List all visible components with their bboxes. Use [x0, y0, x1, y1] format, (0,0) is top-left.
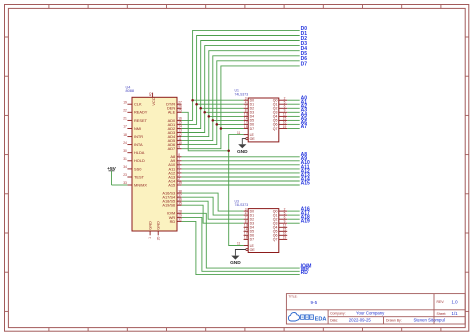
wire A17/S4: 8088 pin to U3 D1	[182, 197, 244, 215]
U3 body	[235, 199, 279, 252]
wire A18: U3 Q2 to net label	[287, 218, 300, 220]
junction node AD3	[203, 111, 206, 114]
wire AD5: 8088 AD5 pin up to data bus and to U1 D5	[182, 56, 300, 141]
svg-text:REV:: REV:	[437, 300, 445, 304]
U3 pin 8 D3	[244, 220, 255, 226]
U4 pin 31 HOLD	[123, 157, 145, 163]
junction node AD2	[199, 107, 202, 110]
wire AD2 branch to U1 D2	[201, 107, 244, 109]
svg-text:OE: OE	[250, 248, 256, 252]
U3 pin 4 D1	[244, 211, 255, 217]
U1 pin 15 Q5	[273, 117, 287, 123]
wire AD0: 8088 AD0 pin up to data bus and to U1 D0	[182, 30, 300, 120]
U4 pin 14 AD2	[168, 125, 182, 131]
U4 pin 30 HLDA	[123, 149, 145, 155]
U4 pin 3 A13	[168, 173, 181, 179]
svg-text:TEST: TEST	[134, 174, 145, 179]
title text fields	[289, 295, 459, 323]
U4 pin 39 A15	[168, 181, 182, 187]
wire AD6: 8088 AD6 pin up to data bus and to U1 D6	[182, 61, 300, 145]
U3 pin 13 D4	[244, 224, 255, 230]
wire AD3: 8088 AD3 pin up to data bus and to U1 D3	[182, 46, 300, 133]
junction node AD1	[195, 103, 198, 106]
wire A16/S3: 8088 pin to U3 D0	[182, 193, 244, 211]
svg-text:Your Company: Your Company	[356, 311, 385, 316]
wire A14: 8088 A14 pin to net label	[182, 180, 300, 182]
svg-text:READY: READY	[134, 110, 148, 115]
svg-text:25: 25	[178, 109, 182, 113]
wire A4: U1 Q4 to net label	[287, 115, 300, 117]
wire A13: 8088 A13 pin to net label	[182, 176, 300, 178]
svg-text:CLK: CLK	[134, 102, 142, 107]
svg-text:18: 18	[123, 133, 127, 137]
wire IO/M: 8088 pin to net label	[182, 213, 300, 268]
svg-text:A19: A19	[301, 219, 310, 225]
wire A2: U1 Q2 to net label	[287, 107, 300, 109]
wire A17: U3 Q1 to net label	[287, 214, 300, 216]
U4 pin 17 NMI	[123, 125, 141, 131]
svg-text:24: 24	[123, 141, 127, 145]
svg-text:A15: A15	[168, 182, 175, 187]
U1 pin 13 D4	[244, 113, 255, 119]
svg-text:30: 30	[123, 149, 127, 153]
wire A15: 8088 A15 pin to net label	[182, 184, 300, 186]
junction node AD4	[208, 115, 211, 118]
svg-text:MN/MX: MN/MX	[134, 182, 147, 187]
U1 pin 18 D7	[244, 125, 255, 131]
svg-text:OE: OE	[250, 137, 256, 141]
wire AD3 branch to U1 D3	[205, 111, 244, 113]
junction node AD0	[191, 99, 194, 102]
svg-text:D7: D7	[250, 127, 255, 131]
junction node AD5	[212, 119, 215, 122]
U1 pin 1 OE (inverting bubble)	[244, 137, 256, 141]
svg-text:INTA: INTA	[134, 142, 143, 147]
wire AD0 branch to U1 D0	[193, 99, 244, 101]
U1 pin 9 Q3	[273, 109, 287, 115]
U1 pin 11 LE	[237, 131, 255, 137]
svg-text:22: 22	[123, 109, 127, 113]
wire AD5 branch to U1 D5	[213, 119, 244, 121]
wire AD4 branch to U1 D4	[209, 115, 244, 117]
U4 pin 5 A11	[169, 165, 182, 171]
U1 pin 14 D5	[244, 117, 255, 123]
U4 body	[126, 85, 178, 231]
U4 pin 33 MN/MX	[123, 181, 147, 187]
U4 pin 15 AD1	[168, 121, 182, 127]
U4 pin 7 A9	[170, 157, 181, 163]
svg-text:Q7: Q7	[273, 127, 278, 131]
svg-text:D7: D7	[301, 61, 308, 67]
svg-text:9-5: 9-5	[311, 300, 318, 305]
U1 pin 4 D1	[244, 101, 255, 107]
wire RD: 8088 pin to net label	[182, 221, 300, 274]
U4 pin 10 AD6	[168, 141, 182, 147]
wire A9: 8088 A9 pin to net label	[182, 160, 300, 162]
U3 pin 7 D2	[244, 216, 255, 222]
wire ALE branch down to U3 LE pin 11	[229, 151, 244, 246]
wire A5: U1 Q5 to net label	[287, 119, 300, 121]
U4 pin 1 GND	[147, 221, 152, 239]
svg-text:Sheet:: Sheet:	[437, 312, 447, 316]
wire A3: U1 Q3 to net label	[287, 111, 300, 113]
svg-text:RD: RD	[301, 270, 309, 276]
wire AD4: 8088 AD4 pin up to data bus and to U1 D4	[182, 51, 300, 137]
U4 pin 36 A18/S5	[162, 197, 182, 203]
U4 pin 34 SS0	[123, 165, 142, 171]
U4 pin 23 TEST	[123, 173, 144, 179]
svg-text:Company:: Company:	[330, 312, 346, 316]
svg-text:VCC: VCC	[151, 97, 156, 105]
svg-text:21: 21	[123, 117, 127, 121]
wire A8: 8088 A8 pin to net label	[182, 156, 300, 158]
U4 pin 26 DEN	[167, 105, 182, 111]
wire A16: U3 Q0 to net label	[287, 210, 300, 212]
svg-text:A15: A15	[301, 180, 310, 186]
EDA logo (cloud + CJK wordmark)	[288, 313, 326, 323]
wire A18/S5: 8088 pin to U3 D2	[182, 201, 244, 219]
U4 pin 28 IO/M	[167, 210, 182, 216]
svg-text:D7: D7	[250, 238, 255, 242]
U4 pin 21 RESET	[123, 117, 147, 123]
wire A6: U1 Q6 to net label	[287, 123, 300, 125]
wire AD1: 8088 AD1 pin up to data bus and to U1 D1	[182, 36, 300, 125]
ground GND at U3 OE	[230, 250, 246, 267]
svg-text:Steven Sitompul: Steven Sitompul	[414, 318, 445, 323]
IC U1 74LS373 address latch	[235, 89, 288, 142]
U1 pin 6 Q2	[273, 105, 287, 111]
wire AD6 branch to U1 D6	[217, 123, 244, 125]
wire A7: U1 Q7 to net label	[287, 128, 300, 130]
U4 pin 38 A16/S3	[162, 189, 182, 195]
U4 pin 11 AD5	[168, 137, 182, 143]
U4 pin 6 A10	[168, 161, 181, 167]
svg-text:19: 19	[283, 125, 287, 129]
U4 pin 18 INTR	[123, 133, 143, 139]
U3 pin 5 Q1	[273, 211, 287, 217]
U4 pin 9 AD7	[168, 145, 182, 151]
U1 pin 7 D2	[244, 105, 255, 111]
svg-text:39: 39	[178, 181, 182, 185]
wire A19: U3 Q3 to net label	[287, 222, 300, 224]
wire A1: U1 Q1 to net label	[287, 103, 300, 105]
U4 pin 12 AD4	[168, 133, 182, 139]
svg-text:1: 1	[148, 237, 152, 239]
U3 pin 11 LE	[237, 242, 255, 248]
svg-text:RESET: RESET	[134, 118, 148, 123]
svg-text:19: 19	[123, 100, 127, 104]
U1 pin 5 Q1	[273, 101, 287, 107]
U4 pin 24 INTA	[123, 141, 143, 147]
U1 body	[235, 89, 279, 142]
wire ALE: 8088 ALE pin to U1 LE and U3 LE	[182, 112, 229, 151]
svg-text:GND: GND	[230, 260, 241, 266]
svg-text:8088: 8088	[126, 89, 134, 93]
svg-text:35: 35	[178, 201, 182, 205]
U4 pin 27 DT/R	[166, 100, 182, 106]
wire WR: 8088 pin to net label	[182, 217, 300, 271]
svg-text:40: 40	[149, 92, 153, 96]
svg-text:Date:: Date:	[330, 318, 338, 322]
junction node ALE	[227, 150, 230, 153]
svg-text:HOLD: HOLD	[134, 158, 145, 163]
svg-text:Q7: Q7	[273, 238, 278, 242]
U4 pin 4 A12	[168, 169, 181, 175]
svg-text:ALE: ALE	[168, 110, 176, 115]
svg-text:Drawn By:: Drawn By:	[386, 318, 402, 322]
U1 pin 12 Q4	[273, 113, 287, 119]
U1 pin 16 Q6	[273, 121, 287, 127]
ground GND at U1 OE	[237, 139, 248, 155]
IC U3 74LS373 address latch	[235, 199, 288, 252]
U3 pin 19 Q7	[273, 236, 287, 242]
wire A12: 8088 A12 pin to net label	[182, 172, 300, 174]
wire A19/S6: 8088 pin to U3 D3	[182, 205, 244, 223]
junction node AD6	[216, 123, 219, 126]
svg-text:A7: A7	[301, 124, 308, 130]
U4 pin 16 AD0	[168, 117, 182, 123]
svg-text:18: 18	[244, 236, 248, 240]
IC U4 8088 CPU	[123, 85, 182, 240]
svg-text:HLDA: HLDA	[134, 150, 145, 155]
svg-text:AD7: AD7	[168, 146, 176, 151]
U3 pin 17 D6	[244, 232, 255, 238]
U3 pin 16 Q6	[273, 232, 287, 238]
svg-text:A19/S6: A19/S6	[162, 203, 175, 208]
U4 pin 35 A19/S6	[162, 201, 182, 207]
U1 pin 17 D6	[244, 121, 255, 127]
svg-text:1.0: 1.0	[452, 299, 459, 304]
svg-text:GND: GND	[147, 221, 152, 230]
U3 pin 12 Q4	[273, 224, 287, 230]
U3 pin 9 Q3	[273, 220, 287, 226]
U4 pin 29 WR	[169, 214, 182, 220]
U1 pin 2 Q0	[273, 97, 287, 103]
svg-text:GND: GND	[237, 149, 248, 155]
U3 pin 1 OE (inverting bubble)	[244, 248, 256, 252]
wire A10: 8088 A10 pin to net label	[182, 164, 300, 166]
U1 pin 19 Q7	[273, 125, 287, 131]
U4 pin 2 A14	[168, 177, 181, 183]
svg-text:31: 31	[123, 157, 127, 161]
svg-text:TITLE:: TITLE:	[289, 295, 298, 299]
wire A0: U1 Q0 to net label	[287, 99, 300, 101]
U4 pin 13 AD3	[168, 129, 182, 135]
U4 pin 8 A8	[170, 153, 181, 159]
svg-text:23: 23	[123, 173, 127, 177]
U4 pin 25 ALE	[168, 109, 182, 115]
wire A11: 8088 A11 pin to net label	[182, 168, 300, 170]
svg-text:32: 32	[178, 218, 182, 222]
svg-text:INTR: INTR	[134, 134, 143, 139]
svg-text:9: 9	[178, 145, 180, 149]
U3 pin 18 D7	[244, 236, 255, 242]
svg-text:SS0: SS0	[134, 166, 142, 171]
svg-text:1/1: 1/1	[452, 311, 459, 316]
svg-text:20: 20	[156, 236, 160, 240]
title block	[286, 294, 465, 324]
U3 pin 3 D0	[244, 207, 255, 213]
wire AD7 branch to U1 D7	[221, 128, 244, 130]
wire ALE branch up to U1 LE pin 11	[229, 135, 244, 151]
U4 pin 37 A17/S4	[162, 193, 182, 199]
svg-text:19: 19	[283, 236, 287, 240]
wire AD1 branch to U1 D1	[197, 103, 244, 105]
U4 pin 32 RD	[170, 218, 182, 224]
U1 pin 8 D3	[244, 109, 255, 115]
U3 pin 15 Q5	[273, 228, 287, 234]
power symbol +5V	[107, 166, 116, 185]
svg-text:34: 34	[123, 165, 127, 169]
U4 pin 20 GND	[156, 221, 161, 240]
wire +5V to U4 MN/MX	[112, 184, 128, 186]
U4 pin 22 READY	[123, 109, 148, 115]
svg-text:2022-09-25: 2022-09-25	[349, 318, 372, 323]
U4 pin 19 CLK	[123, 100, 142, 106]
U3 pin 2 Q0	[273, 207, 287, 213]
svg-text:18: 18	[244, 125, 248, 129]
svg-text:RD: RD	[170, 219, 176, 224]
svg-text:NMI: NMI	[134, 126, 141, 131]
wire AD2: 8088 AD2 pin up to data bus and to U1 D2	[182, 41, 300, 129]
U3 pin 6 Q2	[273, 216, 287, 222]
U1 pin 3 D0	[244, 97, 255, 103]
junction node AD7	[220, 127, 223, 130]
wire AD7: 8088 AD7 pin up to data bus and to U1 D7	[182, 66, 300, 149]
U4 pin 40 VCC	[149, 92, 156, 105]
svg-text:GND: GND	[156, 221, 161, 230]
U3 pin 14 D5	[244, 228, 255, 234]
svg-text:EDA: EDA	[315, 316, 327, 322]
svg-text:17: 17	[123, 125, 127, 129]
